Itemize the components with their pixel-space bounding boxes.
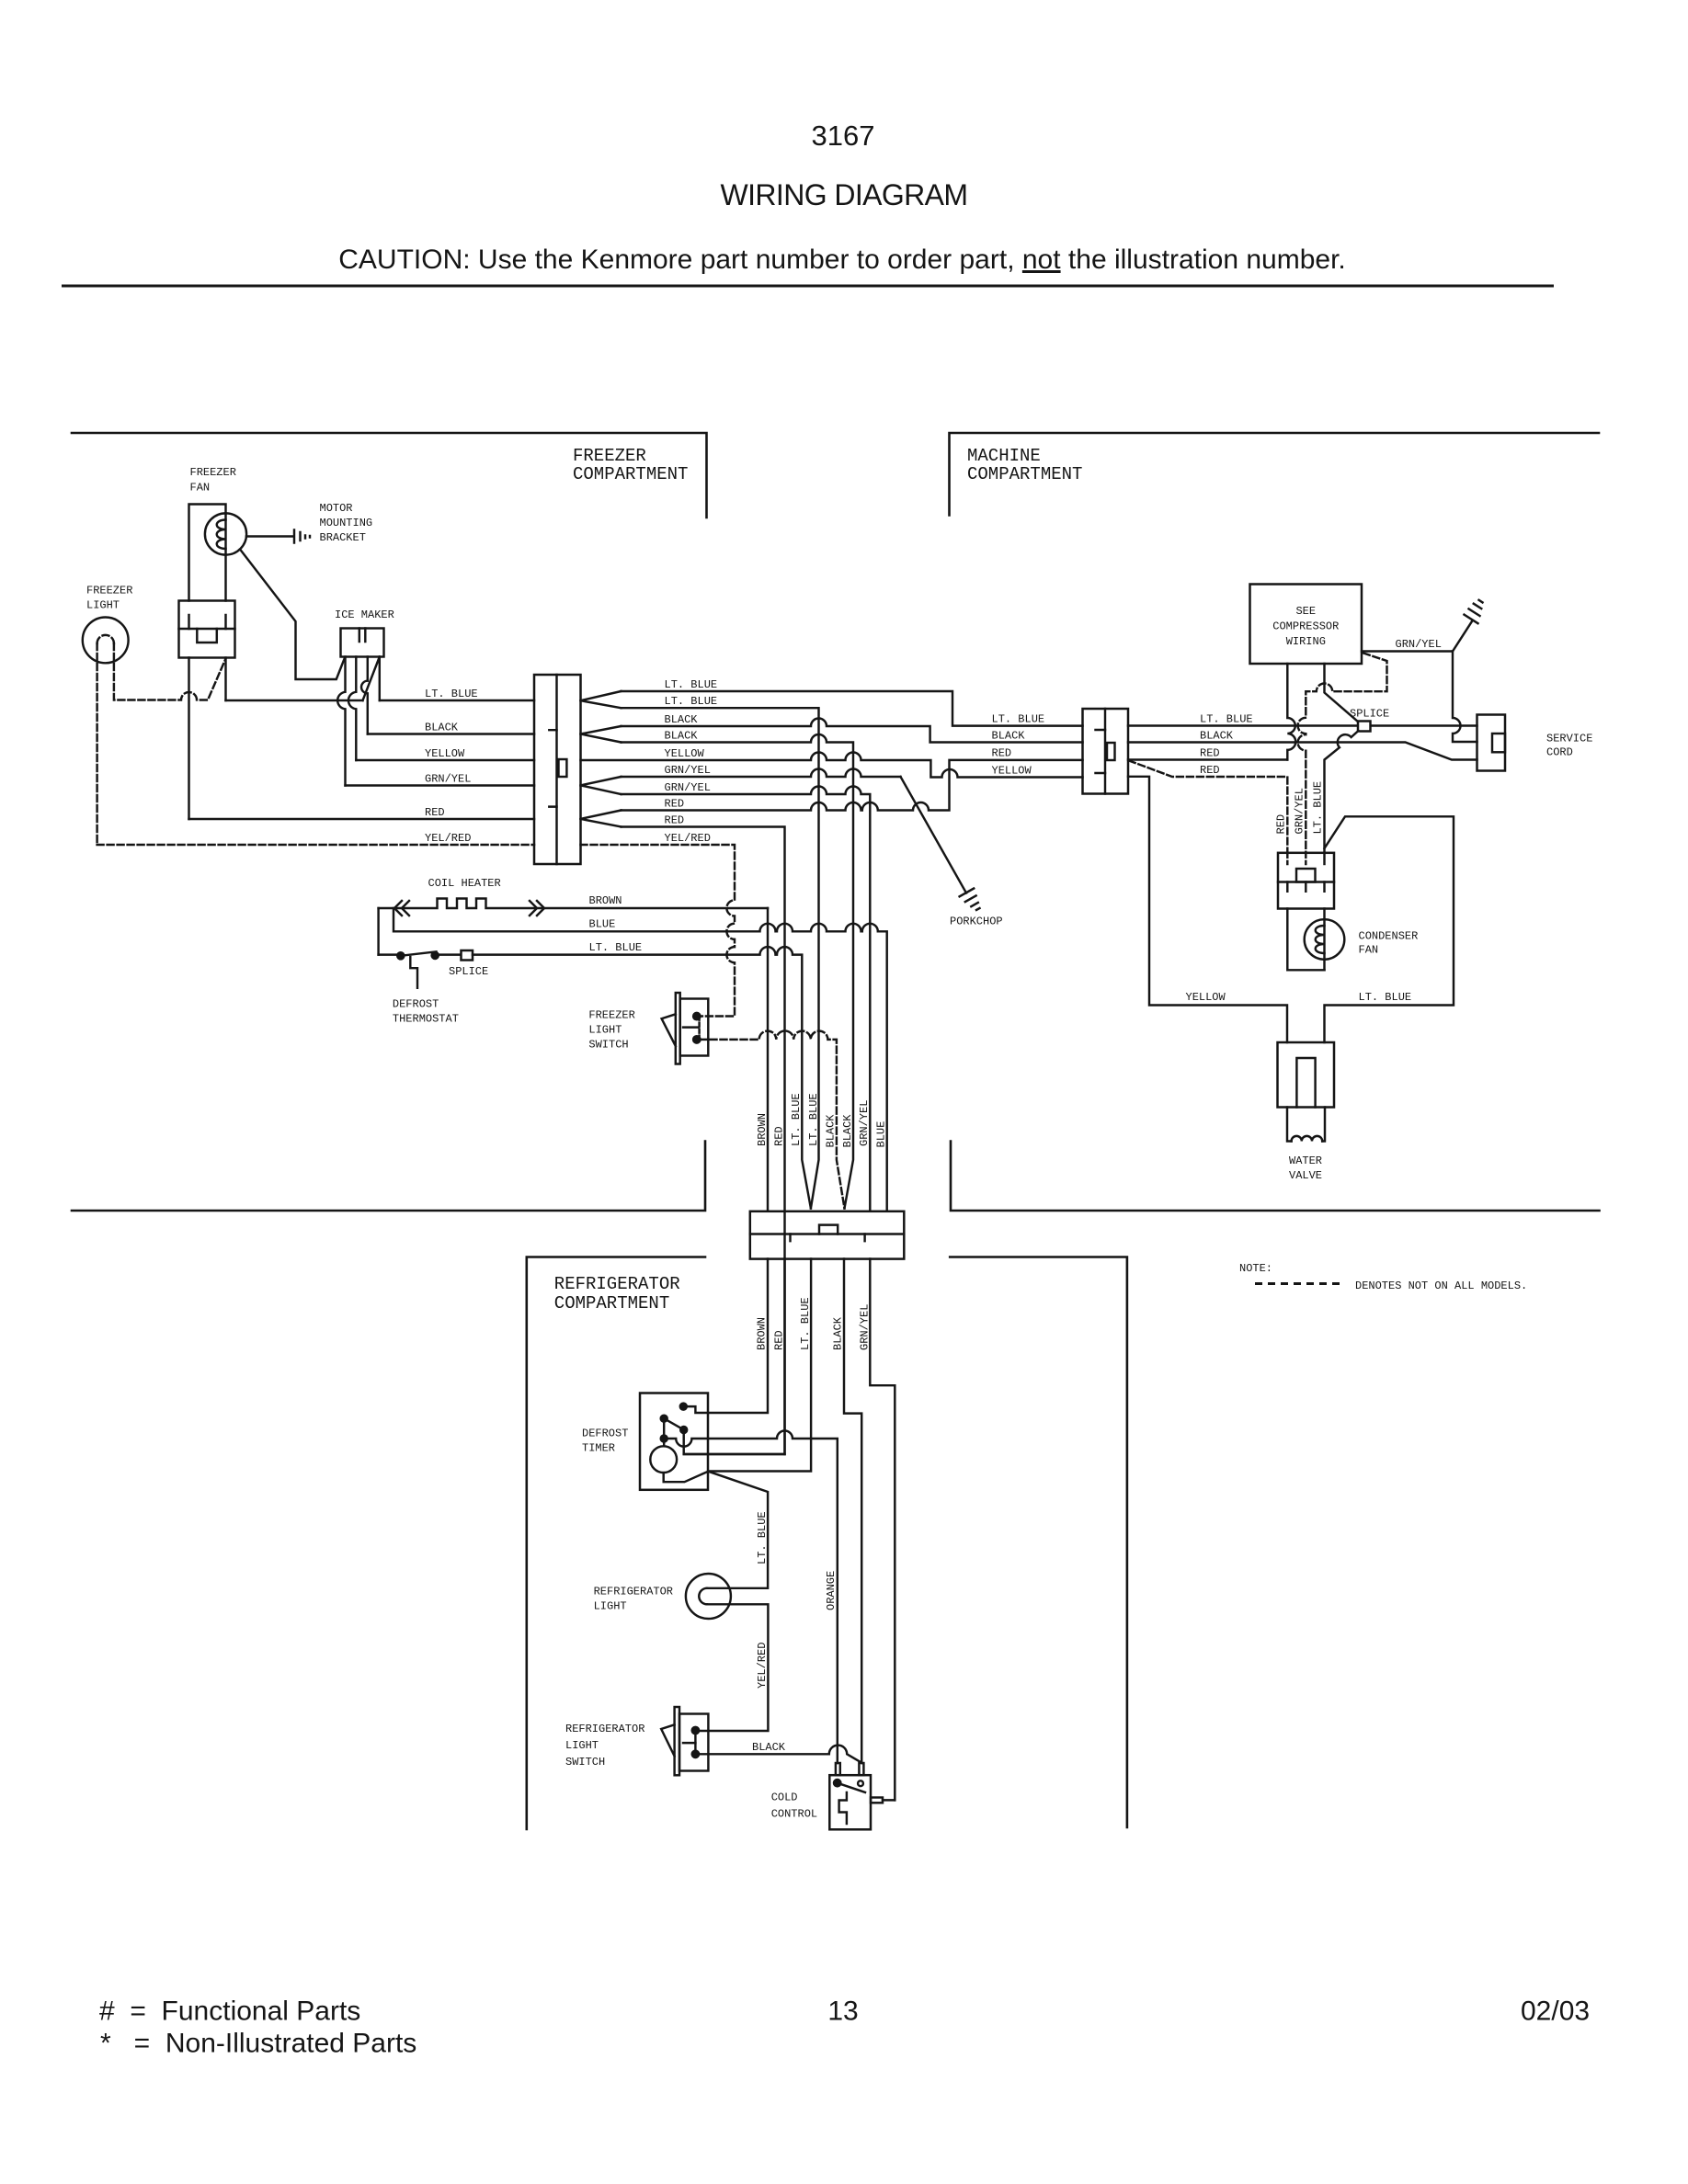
svg-text:REFRIGERATOR: REFRIGERATOR (565, 1723, 644, 1735)
freezer harness connector tab (559, 759, 567, 777)
cold control box (829, 1775, 871, 1829)
svg-text:CONTROL: CONTROL (771, 1808, 817, 1821)
freezer fan motor shaft line (224, 514, 226, 601)
condenser fan coil (1316, 926, 1325, 953)
svg-text:YELLOW: YELLOW (1186, 991, 1226, 1004)
svg-text:COIL HEATER: COIL HEATER (428, 877, 501, 890)
freezer light (83, 618, 129, 664)
svg-text:MACHINE: MACHINE (967, 446, 1041, 466)
defrost thermostat right contact (432, 952, 439, 959)
svg-text:DEFROST: DEFROST (582, 1428, 628, 1440)
defrost timer contact 2 (661, 1416, 667, 1422)
svg-text:SPLICE: SPLICE (449, 965, 488, 978)
svg-text:GRN/YEL: GRN/YEL (859, 1304, 872, 1350)
fan connector block midline (179, 628, 235, 630)
wire BROWN below connector to defrost timer (685, 1259, 768, 1414)
svg-text:FAN: FAN (190, 482, 211, 495)
svg-text:BLACK: BLACK (425, 722, 459, 734)
wire BLACK machine connector to service cord (1128, 743, 1477, 760)
wire YEL/RED refrigerator light to switch (701, 1604, 769, 1731)
wire timer contact3 to RED (684, 1433, 785, 1454)
svg-text:02/03: 02/03 (1521, 1996, 1590, 2027)
defrost thermostat arm (401, 951, 437, 956)
svg-text:LIGHT: LIGHT (594, 1600, 627, 1613)
condenser fan shaft line (1323, 919, 1325, 960)
water valve coil (1292, 1136, 1323, 1142)
water valve inner U (1296, 1058, 1315, 1108)
wire LT. BLUE row left part (226, 700, 363, 701)
wire dashed BLACK light switch to refrigerator connector (701, 1030, 845, 1208)
svg-text:WIRING: WIRING (1286, 635, 1326, 648)
svg-text:LT. BLUE: LT. BLUE (1200, 713, 1253, 726)
wire LT. BLUE relay junction loop right (1325, 816, 1454, 1042)
wire YEL/RED dashed freezer light left leg (96, 643, 97, 845)
refrigerator light switch actuator (694, 1734, 696, 1751)
svg-text:GRN/YEL: GRN/YEL (1396, 638, 1442, 651)
svg-text:LT. BLUE: LT. BLUE (589, 941, 643, 954)
svg-text:BRACKET: BRACKET (320, 531, 366, 544)
svg-text:RED: RED (773, 1126, 786, 1146)
splice square (1358, 722, 1371, 732)
svg-text:ORANGE: ORANGE (825, 1571, 838, 1610)
relay overload box (1278, 853, 1334, 909)
svg-text:CORD: CORD (1546, 746, 1573, 759)
svg-text:COMPRESSOR: COMPRESSOR (1272, 620, 1339, 633)
relay stub dashed GRN/YEL (1305, 853, 1306, 864)
wire fan to motor mounting bracket (246, 535, 292, 537)
cold control tab (871, 1798, 883, 1803)
svg-text:SERVICE: SERVICE (1546, 733, 1592, 745)
svg-text:BROWN: BROWN (589, 894, 622, 907)
svg-text:LT. BLUE: LT. BLUE (1359, 991, 1412, 1004)
wire LT. BLUE row1 to machine connector (622, 691, 1083, 726)
wire GRN/YEL row pin1 to connector (346, 784, 535, 786)
freezer harness connector ticks (549, 730, 556, 806)
water valve coil leads (1287, 1108, 1325, 1142)
svg-text:GRN/YEL: GRN/YEL (665, 764, 711, 777)
svg-text:THERMOSTAT: THERMOSTAT (393, 1013, 459, 1026)
service cord connector (1477, 715, 1506, 771)
svg-text:COLD: COLD (771, 1792, 798, 1804)
refrigerator connector midline (750, 1233, 905, 1234)
svg-text:SWITCH: SWITCH (588, 1039, 628, 1052)
svg-text:LT. BLUE: LT. BLUE (992, 713, 1045, 726)
wire LT. BLUE splice down to relay (1325, 731, 1359, 853)
svg-text:FREEZER: FREEZER (86, 585, 132, 597)
refrigerator light switch common stub (683, 1742, 695, 1744)
refrigerator connector tab (819, 1225, 838, 1234)
svg-text:LIGHT: LIGHT (565, 1739, 599, 1752)
wire BLACK row1 to machine connector (622, 719, 1083, 743)
svg-text:3167: 3167 (812, 119, 875, 152)
wire LT. BLUE timer to refrigerator light (707, 1472, 768, 1588)
wire BLACK row pin3 to connector (368, 733, 534, 734)
ice maker body (341, 629, 384, 657)
defrost timer box (640, 1393, 708, 1490)
svg-text:VALVE: VALVE (1289, 1169, 1322, 1182)
wire LT. BLUE thermostat to splice (439, 953, 462, 955)
machine harness connector tab (1107, 743, 1115, 760)
svg-text:LT. BLUE: LT. BLUE (665, 678, 718, 691)
refrigerator compartment border left (527, 1257, 705, 1830)
svg-text:YEL/RED: YEL/RED (425, 832, 471, 845)
svg-text:RED: RED (425, 806, 445, 819)
wire ORANGE timer contact4 to cold control (667, 1431, 838, 1764)
refrigerator light switch contacts (692, 1727, 699, 1734)
freezer fan bracket (189, 505, 226, 601)
svg-text:RED: RED (992, 747, 1012, 760)
wire RED below connector to timer (783, 1259, 785, 1455)
svg-text:RED: RED (1200, 764, 1220, 777)
wire GRN/YEL row1 to porkchop (622, 769, 901, 778)
svg-text:LT. BLUE: LT. BLUE (790, 1093, 803, 1146)
svg-text:COMPARTMENT: COMPARTMENT (967, 464, 1082, 484)
note legend dashes (1255, 1282, 1342, 1285)
wire relay to condenser fan bottom (1287, 909, 1324, 971)
wire BROWN row with coil heater element (379, 899, 768, 909)
svg-text:GRN/YEL: GRN/YEL (858, 1100, 871, 1146)
svg-text:YEL/RED: YEL/RED (665, 832, 711, 845)
svg-text:LT. BLUE: LT. BLUE (756, 1511, 769, 1564)
svg-text:BLACK: BLACK (832, 1316, 845, 1350)
wire RED fan block left leg (188, 658, 189, 820)
defrost timer contact2 to motor (663, 1418, 665, 1446)
wire BLACK row2 down to refrigerator (622, 734, 854, 1209)
defrost timer motor bottom lead (664, 1472, 709, 1483)
cold control left pin (836, 1763, 840, 1775)
svg-text:LIGHT: LIGHT (588, 1024, 622, 1037)
relay stub dashed RED (1286, 853, 1288, 864)
svg-text:MOTOR: MOTOR (320, 502, 353, 515)
svg-text:LT. BLUE: LT. BLUE (1312, 781, 1325, 835)
svg-text:REFRIGERATOR: REFRIGERATOR (594, 1586, 673, 1598)
wire BLACK pair fan-out (581, 726, 622, 743)
refrigerator harness connector (750, 1211, 905, 1259)
wire GRN/YEL below connector to cold control (870, 1259, 895, 1801)
defrost timer contact 4 (661, 1436, 667, 1442)
svg-text:MOUNTING: MOUNTING (320, 517, 373, 529)
svg-text:BLACK: BLACK (992, 730, 1026, 743)
freezer light switch common stub (683, 1026, 699, 1028)
condenser fan circle (1305, 919, 1345, 960)
wire GRN/YEL ground lead down to service cord (1453, 652, 1477, 743)
svg-text:ICE MAKER: ICE MAKER (335, 609, 394, 621)
svg-text:DENOTES NOT ON ALL MODELS.: DENOTES NOT ON ALL MODELS. (1355, 1280, 1527, 1292)
freezer light switch lever (662, 1014, 676, 1046)
svg-text:BLACK: BLACK (752, 1741, 786, 1754)
svg-text:LT. BLUE: LT. BLUE (665, 695, 718, 708)
wire BLACK switch to cold control (699, 1746, 862, 1763)
svg-text:GRN/YEL: GRN/YEL (425, 773, 471, 786)
wire LT. BLUE fan block right leg (224, 658, 226, 701)
cold control capillary (839, 1792, 847, 1824)
porkchop diagonal (901, 777, 967, 893)
machine harness connector inner line (1104, 709, 1106, 794)
fan connector block (179, 601, 235, 658)
svg-text:LT. BLUE: LT. BLUE (807, 1093, 820, 1146)
coil heater right arrows (530, 901, 544, 916)
header rule (62, 285, 1554, 288)
coil heater left arrows (394, 901, 409, 916)
svg-text:CONDENSER: CONDENSER (1359, 930, 1419, 943)
wire RED row to connector (189, 818, 535, 820)
ice maker pin 4 lead (379, 657, 381, 701)
svg-text:RED: RED (1275, 814, 1288, 835)
wire LT. BLUE heater row right (473, 947, 811, 1208)
wire LT. BLUE below connector to timer (709, 1259, 811, 1472)
compressor right pin to splice (1325, 664, 1359, 722)
machine compartment border bottom (951, 1142, 1600, 1211)
svg-text:WIRING DIAGRAM: WIRING DIAGRAM (721, 178, 968, 211)
svg-text:GRN/YEL: GRN/YEL (665, 781, 711, 794)
svg-text:DEFROST: DEFROST (393, 998, 439, 1011)
svg-text:FREEZER: FREEZER (588, 1009, 634, 1022)
svg-text:GRN/YEL: GRN/YEL (1294, 788, 1306, 834)
freezer compartment border bottom (72, 1142, 705, 1211)
cold control arm (838, 1783, 865, 1792)
machine compartment border (950, 433, 1600, 516)
svg-text:COMPARTMENT: COMPARTMENT (554, 1293, 669, 1314)
wire RED row2 down to defrost timer (622, 827, 785, 1455)
coil heater left bracket (377, 908, 379, 955)
compressor ground symbol (1465, 600, 1483, 623)
relay stub LT. BLUE (1323, 853, 1325, 864)
wire GRN/YEL row2 down to refrigerator (622, 787, 871, 1211)
svg-text:RED: RED (665, 814, 685, 827)
svg-text:RED: RED (1200, 746, 1220, 759)
wire YELLOW row pin2 to connector (356, 759, 534, 761)
svg-text:BLUE: BLUE (875, 1121, 888, 1148)
wire BLACK below connector to cold control (844, 1259, 861, 1763)
wire LT. BLUE row right part to connector (380, 700, 534, 701)
svg-text:LIGHT: LIGHT (86, 599, 120, 612)
relay tab (1296, 869, 1316, 882)
wire dashed freezer light right leg to fan block (114, 643, 226, 700)
porkchop ground (960, 889, 980, 911)
defrost timer motor (650, 1446, 677, 1473)
ice maker pin 1 lead to GRN/YEL (337, 657, 345, 786)
freezer harness connector (534, 675, 581, 864)
wire LT. BLUE heater row left (379, 953, 397, 955)
compressor left pin to RED row (1287, 664, 1295, 760)
svg-text:RED: RED (665, 798, 685, 811)
service cord tab (1492, 734, 1505, 752)
svg-text:BLACK: BLACK (665, 730, 699, 743)
wire RED pair fan-out (581, 811, 622, 827)
refrigerator light switch body (679, 1714, 708, 1771)
svg-text:PORKCHOP: PORKCHOP (950, 916, 1003, 928)
svg-text:REFRIGERATOR: REFRIGERATOR (554, 1274, 680, 1294)
splice square left (462, 950, 473, 961)
DIAGRAM_LINES4 (554, 446, 1083, 1314)
refrigerator light switch plate (675, 1707, 679, 1775)
wire GRN/YEL pair fan-out (581, 777, 622, 794)
wire YEL/RED dashed bottom row to connector (97, 844, 534, 846)
wire YEL/RED dashed right of connector down to light switch (581, 845, 736, 1017)
svg-text:BLACK: BLACK (825, 1114, 838, 1148)
svg-text:LT. BLUE: LT. BLUE (799, 1297, 812, 1350)
svg-text:FAN: FAN (1359, 944, 1379, 957)
machine harness connector (1083, 709, 1129, 794)
cold control right pin (859, 1763, 863, 1775)
svg-text:BROWN: BROWN (756, 1317, 769, 1350)
ice maker pin 4 diagonal (363, 657, 380, 701)
svg-text:BROWN: BROWN (756, 1113, 769, 1146)
fan connector block ticks (189, 615, 226, 629)
relay inner line (1278, 881, 1334, 882)
wire RED row1 to machine connector (622, 760, 1083, 811)
svg-text:* = Non-Illustrated Parts: * = Non-Illustrated Parts (100, 2029, 416, 2059)
condenser fan leads (1323, 909, 1325, 971)
wire RED dashed to relay (1129, 761, 1287, 853)
fan connector block tab (197, 629, 217, 643)
ice maker notch (359, 629, 366, 643)
svg-text:WATER: WATER (1289, 1155, 1322, 1167)
freezer compartment border (72, 433, 707, 518)
svg-text:COMPARTMENT: COMPARTMENT (573, 464, 688, 484)
svg-text:FREEZER: FREEZER (573, 446, 646, 466)
wire YELLOW machine connector down to water valve (1128, 777, 1287, 1042)
svg-text:CAUTION: Use the Kenmore part: CAUTION: Use the Kenmore part number to … (338, 245, 1346, 275)
freezer light switch contacts (693, 1013, 700, 1019)
wire LT. BLUE row2 down to refrigerator (622, 708, 819, 1208)
svg-text:YELLOW: YELLOW (665, 747, 705, 760)
freezer light switch actuator dashed (698, 1017, 700, 1040)
machine harness connector ticks (1096, 730, 1106, 773)
svg-text:SWITCH: SWITCH (565, 1756, 605, 1769)
defrost timer contact 3 (680, 1427, 687, 1433)
svg-text:YEL/RED: YEL/RED (756, 1643, 769, 1689)
freezer light switch body (680, 999, 709, 1056)
svg-text:BLACK: BLACK (1200, 730, 1234, 743)
svg-text:# = Functional Parts: # = Functional Parts (99, 1996, 360, 2027)
svg-text:LT. BLUE: LT. BLUE (425, 688, 478, 700)
defrost thermostat left contact (397, 952, 404, 959)
wire RED machine connector to compressor (1128, 758, 1287, 760)
wire fan to ice maker pin 1 (240, 550, 345, 680)
refrigerator light switch lever (661, 1724, 674, 1756)
freezer harness connector inner line (555, 675, 557, 864)
ice maker pin 3 lead to BLACK (361, 657, 368, 734)
wire GRN/YEL cold control tab (883, 1799, 895, 1801)
wire GRN/YEL compressor to ground (1362, 621, 1472, 652)
freezer fan coil (217, 520, 226, 550)
wire YELLOW row through connector (581, 753, 1083, 778)
svg-text:RED: RED (773, 1330, 786, 1350)
defrost timer contact 1 (680, 1404, 687, 1410)
svg-text:SEE: SEE (1295, 605, 1316, 618)
cold control right contact (858, 1780, 863, 1786)
wire LT. BLUE machine connector to service cord (1128, 724, 1477, 726)
freezer light switch plate (676, 993, 680, 1064)
refrigerator connector ticks (791, 1234, 865, 1242)
svg-text:NOTE:: NOTE: (1239, 1262, 1272, 1275)
freezer fan motor circle (205, 513, 246, 554)
svg-text:SPLICE: SPLICE (1350, 708, 1389, 721)
water valve connector (1278, 1042, 1335, 1108)
defrost timer arm (664, 1418, 684, 1429)
svg-text:YELLOW: YELLOW (992, 765, 1032, 778)
wire GRN/YEL dashed compressor to relay (1298, 654, 1387, 853)
ice maker pin 2 lead to YELLOW (348, 657, 356, 761)
freezer light filament dashed (97, 635, 114, 643)
defrost thermostat capillary (410, 957, 417, 988)
refrigerator light (686, 1574, 731, 1619)
refrigerator light filament (699, 1588, 707, 1605)
relay inner stubs (1287, 882, 1324, 892)
wire BLUE row (393, 908, 887, 1211)
svg-text:YELLOW: YELLOW (425, 747, 465, 760)
wire LT. BLUE pair fan-out (581, 691, 622, 708)
motor mounting bracket ground (294, 530, 310, 543)
svg-text:TIMER: TIMER (582, 1442, 615, 1455)
svg-text:13: 13 (827, 1996, 858, 2027)
compressor wiring box (1250, 585, 1363, 665)
svg-text:BLACK: BLACK (841, 1114, 854, 1148)
wire BROWN down to refrigerator connector (767, 908, 769, 1211)
svg-text:BLACK: BLACK (665, 713, 699, 726)
refrigerator compartment border right (950, 1257, 1127, 1828)
svg-text:FREEZER: FREEZER (190, 466, 236, 479)
cold control left contact (834, 1780, 840, 1786)
svg-text:BLUE: BLUE (589, 918, 616, 931)
